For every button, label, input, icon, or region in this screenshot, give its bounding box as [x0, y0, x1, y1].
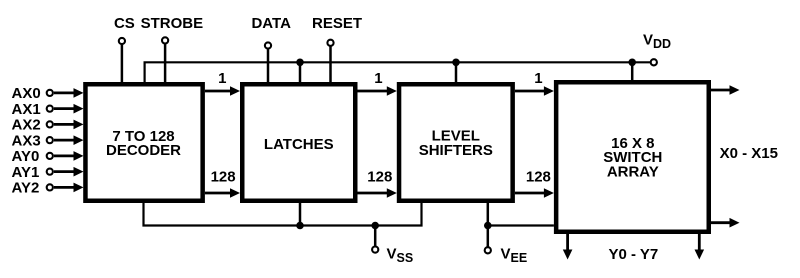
block U1 7 TO 128 DECODER [85, 84, 202, 201]
terminal DATA [251, 15, 291, 82]
svg-text:LATCHES: LATCHES [264, 136, 334, 153]
svg-text:128: 128 [211, 169, 236, 186]
terminal VEE [484, 222, 527, 265]
bus arrow LATCHES to LEVEL SHIFTERS width 1 [358, 70, 397, 96]
junction dot + stub LATCHES to VSS rail [296, 203, 304, 229]
input AY0 [12, 148, 84, 165]
input AY2 [12, 180, 84, 197]
svg-text:SHIFTERS: SHIFTERS [419, 142, 493, 159]
junction dot + stub VDD to LATCHES [296, 59, 304, 83]
terminal CS [114, 15, 135, 82]
bus arrow DECODER to LATCHES width 128 [205, 169, 240, 198]
junction dot + stub VDD to LEVEL SHIFTERS [452, 59, 460, 83]
input AY1 [12, 164, 84, 181]
wire VEE rail [488, 203, 554, 248]
svg-text:AY1: AY1 [12, 164, 40, 181]
bus arrow LATCHES to LEVEL SHIFTERS width 128 [358, 169, 397, 198]
svg-text:STROBE: STROBE [141, 15, 204, 32]
input AX0 [12, 85, 84, 102]
svg-text:AX0: AX0 [12, 85, 41, 102]
terminal RESET [312, 15, 362, 82]
block U4 16 X 8 SWITCH ARRAY [556, 82, 709, 232]
svg-text:1: 1 [534, 70, 542, 87]
svg-text:DATA: DATA [251, 15, 291, 32]
svg-text:DECODER: DECODER [106, 142, 181, 159]
svg-text:AY0: AY0 [12, 148, 40, 165]
block U3 LEVEL SHIFTERS [399, 84, 513, 201]
svg-text:1: 1 [374, 70, 382, 87]
svg-text:1: 1 [218, 70, 226, 87]
output arrow X bottom [711, 218, 740, 228]
bus arrow DECODER to LATCHES width 1 [205, 70, 240, 96]
output arrow X top [711, 85, 740, 95]
svg-text:128: 128 [367, 169, 392, 186]
bus arrow LEVEL SHIFTERS to SWITCH ARRAY width 1 [515, 70, 554, 96]
bus arrow LEVEL SHIFTERS to SWITCH ARRAY width 128 [515, 169, 554, 198]
svg-text:AX3: AX3 [12, 132, 41, 149]
svg-text:AX1: AX1 [12, 101, 41, 118]
input AX2 [12, 117, 84, 134]
terminal STROBE [141, 15, 204, 82]
terminal VSS [371, 222, 413, 265]
block U2 LATCHES [242, 84, 355, 201]
input AX3 [12, 132, 84, 149]
svg-text:CS: CS [114, 15, 135, 32]
svg-text:AX2: AX2 [12, 117, 41, 134]
svg-text:ARRAY: ARRAY [607, 163, 659, 180]
svg-text:Y0 - Y7: Y0 - Y7 [609, 246, 659, 263]
input AX1 [12, 101, 84, 118]
output arrow Y right [695, 234, 705, 260]
svg-text:X0 - X15: X0 - X15 [720, 145, 778, 162]
svg-text:128: 128 [526, 169, 551, 186]
svg-text:AY2: AY2 [12, 180, 40, 197]
terminal VDD [643, 32, 671, 66]
output arrow Y left [563, 234, 573, 260]
svg-text:RESET: RESET [312, 15, 362, 32]
wire VSS rail [144, 201, 422, 225]
wire VDD rail [145, 62, 654, 82]
junction dot + stub VDD to SWITCH ARRAY [628, 59, 636, 81]
